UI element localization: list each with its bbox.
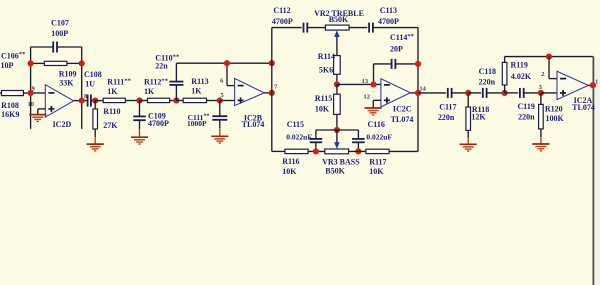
svg-text:R109: R109 xyxy=(59,70,77,79)
label IC2B xyxy=(242,114,265,129)
label R117 value xyxy=(369,158,386,176)
junction at C114 tap on inverting row xyxy=(370,81,376,87)
svg-text:10P: 10P xyxy=(1,61,14,70)
wire IC2C non-inverting input to ground xyxy=(373,100,381,107)
label IC2A xyxy=(572,96,595,112)
svg-text:20P: 20P xyxy=(390,45,403,54)
svg-text:0.022uF: 0.022uF xyxy=(286,133,312,142)
svg-text:C107: C107 xyxy=(51,18,69,27)
ground at IC2C non-inverting input xyxy=(365,108,382,115)
svg-text:27K: 27K xyxy=(103,121,118,130)
resistor R110 xyxy=(93,101,98,144)
svg-text:C119: C119 xyxy=(518,102,535,111)
label C113 value xyxy=(378,6,399,26)
junction at feedback/inverting tap of IC2A xyxy=(546,54,552,60)
svg-text:220n: 220n xyxy=(479,77,496,86)
svg-text:R114: R114 xyxy=(318,52,335,61)
label IC2C xyxy=(391,105,414,125)
wire C119 node link xyxy=(505,92,518,94)
label R115 value xyxy=(315,94,332,114)
svg-text:100P: 100P xyxy=(51,29,68,38)
sheet margin strip xyxy=(595,57,600,285)
label R116 value xyxy=(282,157,299,176)
label C116 value xyxy=(366,120,392,142)
svg-text:C113: C113 xyxy=(380,6,397,15)
svg-text:2: 2 xyxy=(541,71,544,78)
svg-text:4.02K: 4.02K xyxy=(511,72,532,81)
junction at R112/R113/C110 xyxy=(173,97,179,103)
capacitor C119 xyxy=(520,88,541,98)
svg-text:1K: 1K xyxy=(144,87,155,96)
wire IC2B output xyxy=(264,92,272,94)
resistor R113 xyxy=(183,98,220,102)
label R112 value xyxy=(144,78,169,97)
svg-text:220n: 220n xyxy=(438,113,455,122)
svg-text:4700P: 4700P xyxy=(148,119,169,128)
svg-text:1K: 1K xyxy=(191,86,202,95)
wire IC2A inverting input drop xyxy=(549,57,557,79)
resistor R111 xyxy=(103,98,139,102)
label C119 value xyxy=(518,102,536,122)
svg-text:12K: 12K xyxy=(471,112,486,121)
label C111 value xyxy=(187,113,210,128)
svg-text:R113: R113 xyxy=(191,77,208,86)
ground at IC2D non-inverting input xyxy=(29,115,46,122)
label C110 value xyxy=(155,53,180,70)
capacitor C107 xyxy=(53,42,57,53)
svg-text:IC2D: IC2D xyxy=(53,120,72,129)
junction at R116/VR3/C115 xyxy=(313,148,319,154)
wire IC2D output xyxy=(74,100,87,102)
svg-text:IC2C: IC2C xyxy=(393,105,412,114)
label R113 value xyxy=(191,77,208,95)
wire IC2C output to C117 xyxy=(418,92,446,94)
junction at feedback/inverting tap xyxy=(224,60,230,66)
wire IC2C output xyxy=(410,92,418,94)
resistor R119 xyxy=(502,57,507,93)
resistor R116 xyxy=(285,149,325,153)
capacitor C109 xyxy=(133,101,146,137)
wire IC2D output to R111 xyxy=(95,100,103,102)
wire node to IC2A non-inverting input xyxy=(541,92,557,94)
junction at R114/R115/IC2C inverting xyxy=(334,81,340,87)
label R110 value xyxy=(103,107,120,130)
svg-text:13: 13 xyxy=(362,78,369,85)
svg-text:TL074: TL074 xyxy=(572,103,595,112)
svg-text:10: 10 xyxy=(28,101,35,108)
svg-text:B50K: B50K xyxy=(325,166,345,175)
label C118 value xyxy=(479,67,496,87)
svg-text:100K: 100K xyxy=(545,114,564,123)
junction at feedback/output rail xyxy=(269,60,275,66)
svg-text:14: 14 xyxy=(419,86,426,93)
wire IC2B feedback top row xyxy=(176,62,271,64)
ground under C111 xyxy=(211,136,228,143)
wire IC2D feedback right rail xyxy=(81,47,83,129)
label R120 value xyxy=(545,104,565,123)
resistor R120 xyxy=(539,93,544,144)
svg-text:C117: C117 xyxy=(439,103,456,112)
resistor R115 xyxy=(334,84,341,130)
junction at C114/output rail xyxy=(415,61,421,67)
junction at R111/R112/C109 xyxy=(136,97,142,103)
label R108 value xyxy=(1,101,19,119)
wire tone network left rail xyxy=(271,28,273,152)
capacitor C111 xyxy=(212,101,227,136)
junction at IC2D output/feedback xyxy=(79,98,85,104)
wire IC2C inverting input row xyxy=(337,83,381,85)
resistor R118 xyxy=(466,93,471,144)
junction at VR3/R117/C116 xyxy=(355,148,361,154)
junction at C117/R118/C118 xyxy=(465,90,471,96)
junction at C119/R120/IC2A input xyxy=(538,90,544,96)
capacitor C114 xyxy=(374,59,419,85)
wire R118 node to C118 xyxy=(468,92,481,94)
svg-text:TL074: TL074 xyxy=(391,115,414,124)
svg-text:220n: 220n xyxy=(518,112,535,121)
resistor R109 xyxy=(31,61,82,65)
junction at IC2D inverting input xyxy=(28,90,34,96)
capacitor C115 xyxy=(310,130,323,151)
svg-text:C108: C108 xyxy=(84,70,102,79)
svg-text:10K: 10K xyxy=(369,167,384,176)
wire C107 feedback row xyxy=(31,46,82,48)
svg-text:1: 1 xyxy=(595,78,598,85)
svg-text:VR3 BASS: VR3 BASS xyxy=(322,157,360,166)
label C117 value xyxy=(438,103,457,122)
junction at C108/R110 xyxy=(92,98,98,104)
svg-text:C116: C116 xyxy=(368,120,385,129)
svg-text:C115: C115 xyxy=(287,120,304,129)
svg-text:1K: 1K xyxy=(107,87,118,96)
wire R112/R113 link xyxy=(176,100,183,102)
svg-text:TL074: TL074 xyxy=(242,120,265,129)
junction at IC2A output xyxy=(590,82,596,88)
wire top chain left segment xyxy=(272,27,302,29)
capacitor C108 xyxy=(88,95,96,107)
capacitor C113 xyxy=(349,23,418,33)
resistor R114 xyxy=(334,56,341,85)
potentiometer VR3 xyxy=(325,130,349,154)
resistor R117 xyxy=(349,149,418,153)
label R119 value xyxy=(511,61,532,81)
wire IC2D non-inverting input to ground xyxy=(38,109,46,114)
wire bottom chain left segment xyxy=(272,150,285,152)
label VR2 value xyxy=(314,9,364,24)
op-amp IC2D xyxy=(45,85,73,117)
ground under C109 xyxy=(131,137,148,144)
label C108 value xyxy=(84,70,102,88)
svg-text:33K: 33K xyxy=(59,79,74,88)
capacitor C112 xyxy=(304,23,326,33)
svg-text:R120: R120 xyxy=(545,104,563,113)
label R109 value xyxy=(59,70,77,88)
svg-text:R116: R116 xyxy=(282,157,299,166)
svg-text:1U: 1U xyxy=(85,79,95,88)
svg-text:16K9: 16K9 xyxy=(1,110,19,119)
svg-text:R115: R115 xyxy=(315,94,332,103)
resistor R108 xyxy=(0,91,31,96)
wire IC2A feedback top row xyxy=(505,57,594,285)
wire C115/C116 top row xyxy=(316,129,359,131)
junction at C118/R119/C119 xyxy=(502,90,508,96)
wire R113 to IC2B non-inverting input xyxy=(220,100,235,102)
junction at R109/C107 left xyxy=(28,60,34,66)
label C115 value xyxy=(286,120,312,142)
svg-text:4700P: 4700P xyxy=(378,17,399,26)
wire IC2B inverting input drop xyxy=(227,63,235,85)
label C109 value xyxy=(148,112,169,129)
svg-text:R110: R110 xyxy=(103,107,120,116)
ground under R118 xyxy=(460,144,477,151)
svg-text:5K6: 5K6 xyxy=(319,65,333,74)
svg-text:12: 12 xyxy=(364,93,371,100)
label C106 value xyxy=(1,51,27,70)
op-amp IC2A xyxy=(557,71,588,99)
label R118 value xyxy=(471,105,489,121)
svg-text:R108: R108 xyxy=(1,101,19,110)
junction at R115/C115/C116 xyxy=(334,127,340,133)
svg-text:10K: 10K xyxy=(315,105,330,114)
resistor R112 xyxy=(148,98,177,102)
label C114 value xyxy=(390,33,415,54)
svg-text:B50K: B50K xyxy=(329,15,349,24)
svg-text:C112: C112 xyxy=(273,6,290,15)
wire R111/R112 link xyxy=(140,100,148,102)
capacitor C117 xyxy=(448,88,468,98)
junction at R109/C107 right xyxy=(79,60,85,66)
wire IC2A output xyxy=(588,84,593,86)
capacitor C110 xyxy=(169,63,183,100)
label C112 value xyxy=(272,6,293,26)
svg-text:R119: R119 xyxy=(511,61,528,70)
svg-text:0.022uF: 0.022uF xyxy=(366,133,392,142)
op-amp IC2B xyxy=(235,78,265,105)
svg-text:1000P: 1000P xyxy=(187,119,207,128)
capacitor C118 xyxy=(483,88,505,98)
label VR3 value xyxy=(322,157,360,175)
label R111 value xyxy=(107,78,131,97)
ground under R120 xyxy=(532,144,549,151)
label R114 value xyxy=(318,52,335,74)
svg-text:10K: 10K xyxy=(282,167,297,176)
svg-text:C118: C118 xyxy=(479,67,496,76)
node A: IC2D inverting input net xyxy=(31,47,46,129)
junction at IC2B output rail xyxy=(269,90,275,96)
op-amp IC2C xyxy=(381,79,411,107)
junction at IC2C output rail xyxy=(415,90,421,96)
svg-text:R117: R117 xyxy=(369,158,386,167)
svg-text:22n: 22n xyxy=(155,62,168,71)
svg-text:4700P: 4700P xyxy=(272,17,293,26)
ground under R110 xyxy=(87,144,104,151)
potentiometer VR2 xyxy=(325,25,349,55)
label C107 value xyxy=(51,18,69,38)
capacitor C116 xyxy=(352,130,365,151)
wire tone network right rail xyxy=(417,28,419,152)
junction at R113/C111/IC2B input xyxy=(217,97,223,103)
